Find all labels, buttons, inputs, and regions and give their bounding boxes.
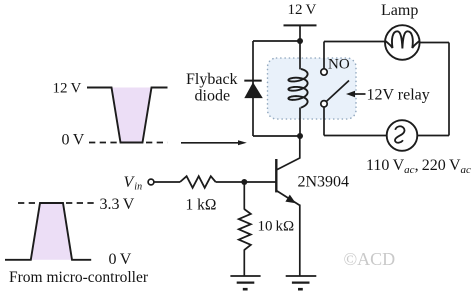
arrow 12V relay xyxy=(346,91,355,97)
waveform W1 fill (12V to 0V pulse) xyxy=(112,88,152,143)
svg-text:2N3904: 2N3904 xyxy=(298,174,350,191)
wire R2 to ground xyxy=(243,250,245,277)
wire diode bottom to collector node xyxy=(253,135,300,137)
svg-text:0 V: 0 V xyxy=(109,251,132,268)
svg-text:©ACD: ©ACD xyxy=(344,249,396,269)
relay switch upper contact xyxy=(321,69,327,75)
ground G1 xyxy=(230,275,260,277)
relay coil L1 loops xyxy=(288,69,307,108)
wire node to R2 xyxy=(243,182,245,210)
collector lead xyxy=(276,137,300,170)
diode branch wire xyxy=(252,41,254,136)
svg-text:diode: diode xyxy=(195,88,231,105)
node supply junction xyxy=(297,38,303,44)
right rail wire xyxy=(448,43,450,136)
wire AC left xyxy=(324,135,387,137)
resistor R2 10k zigzag xyxy=(239,209,251,250)
arrow from waveform W1 to collector node xyxy=(181,142,240,144)
wire lamp to right rail xyxy=(420,42,449,44)
dashed 3.3V line right xyxy=(66,202,96,204)
relay coil L1: top wire xyxy=(299,41,301,69)
svg-text:Flyback: Flyback xyxy=(186,71,238,88)
waveform W2 trace xyxy=(5,203,91,260)
emitter arrowhead xyxy=(285,195,295,204)
svg-text:0 V: 0 V xyxy=(62,132,85,149)
wire R1 to base node xyxy=(216,181,277,183)
transistor Q1 2N3904 bar xyxy=(275,159,277,192)
svg-text:From micro-controller: From micro-controller xyxy=(9,269,149,286)
dashed 0V line right xyxy=(146,142,168,144)
relay box xyxy=(268,58,357,119)
wire NO to lamp xyxy=(324,41,386,43)
dashed 0V line left xyxy=(89,142,119,144)
svg-text:3.3 V: 3.3 V xyxy=(100,196,135,213)
waveform W1 trace xyxy=(87,88,168,143)
resistor R1 1k zigzag xyxy=(180,176,216,188)
diode D1 triangle xyxy=(244,82,262,98)
relay switch lower contact xyxy=(321,101,327,107)
waveform W2 fill (0 to 3.3V pulse) xyxy=(31,203,72,260)
wire NO contact up xyxy=(323,42,325,69)
diode D1 flyback: cathode bar xyxy=(244,80,261,82)
AC source squiggle xyxy=(395,126,405,142)
AC source circle xyxy=(387,120,418,151)
svg-text:1 kΩ: 1 kΩ xyxy=(186,197,217,214)
wire lower contact down xyxy=(323,107,325,136)
svg-text:Lamp: Lamp xyxy=(381,2,418,19)
svg-text:NO: NO xyxy=(328,56,350,72)
wire input to R1 xyxy=(154,181,180,183)
svg-text:12 V: 12 V xyxy=(53,81,82,97)
node base junction xyxy=(241,179,247,185)
svg-text:12V relay: 12V relay xyxy=(367,87,430,104)
relay coil L1: bottom wire xyxy=(299,108,301,137)
lamp filament xyxy=(385,31,420,48)
ground G2 xyxy=(286,275,317,277)
dashed 3.3V line left xyxy=(18,202,38,204)
wire AC right xyxy=(417,135,449,137)
node collector junction xyxy=(297,133,303,139)
lamp circle xyxy=(385,25,420,60)
svg-text:12 V: 12 V xyxy=(288,2,317,18)
emitter lead xyxy=(276,191,300,206)
svg-text:110 Vac, 220 Vac: 110 Vac, 220 Vac xyxy=(366,157,471,176)
svg-text:in: in xyxy=(134,182,142,193)
wire supply to diode top xyxy=(253,40,300,42)
relay switch blade xyxy=(326,81,349,102)
svg-text:10 kΩ: 10 kΩ xyxy=(258,219,295,235)
input terminal Vin xyxy=(148,179,154,185)
supply rail 12V T-bar xyxy=(284,24,317,26)
emitter wire to ground xyxy=(299,205,301,277)
